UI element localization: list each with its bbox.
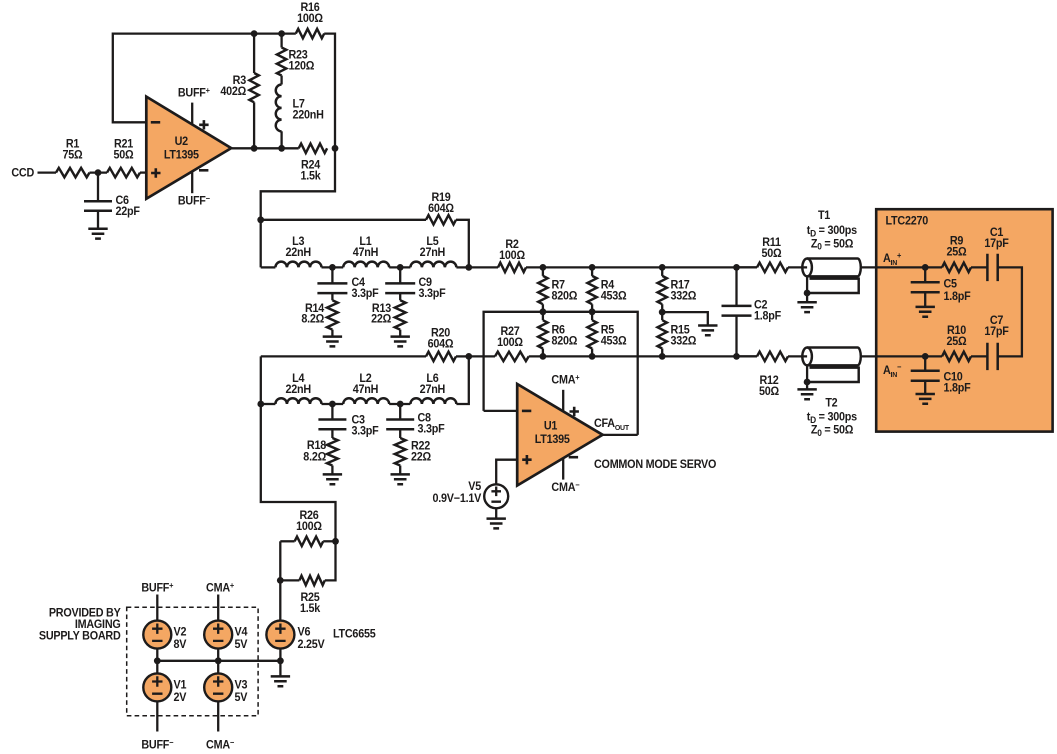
wire inverting input U1 <box>484 410 518 412</box>
node C2 bottom junction <box>733 353 740 360</box>
svg-text:V6: V6 <box>298 626 311 638</box>
inductor L4 <box>261 373 322 404</box>
wire <box>279 649 281 661</box>
svg-text:V3: V3 <box>235 679 248 691</box>
resistor R25 <box>280 541 335 615</box>
pin CMA- supply stub U1 <box>551 458 580 494</box>
resistor R3 <box>220 34 258 149</box>
capacitor C3 <box>318 404 378 438</box>
inductor L5 <box>410 236 456 268</box>
ground <box>916 307 935 317</box>
svg-text:820Ω: 820Ω <box>552 290 578 302</box>
svg-text:T2: T2 <box>825 397 837 409</box>
wire <box>279 580 281 620</box>
node R27-R6 junction <box>540 353 547 360</box>
svg-text:1.8pF: 1.8pF <box>754 310 781 322</box>
wire <box>217 649 219 674</box>
node R20-L6-R27 junction <box>465 353 472 360</box>
svg-text:5V: 5V <box>235 639 248 651</box>
resistor R19 <box>261 191 469 267</box>
transmission line T1 <box>802 209 860 293</box>
svg-text:17pF: 17pF <box>984 325 1009 337</box>
svg-text:SUPPLY BOARD: SUPPLY BOARD <box>39 630 121 642</box>
ground <box>391 337 410 347</box>
svg-text:100Ω: 100Ω <box>497 337 523 349</box>
svg-text:CCD: CCD <box>11 167 34 179</box>
node L1-L5-C9 junction <box>397 264 404 271</box>
node output-R16 junction <box>332 145 339 152</box>
pin CMA+ supply stub U1 <box>551 373 580 411</box>
pin AIN+ label <box>883 251 902 268</box>
svg-text:3.3pF: 3.3pF <box>352 425 379 437</box>
resistor R2 <box>469 239 543 272</box>
wire <box>389 403 410 405</box>
svg-text:LTC6655: LTC6655 <box>333 628 376 640</box>
wire output jog down <box>261 148 335 267</box>
svg-text:V2: V2 <box>174 626 187 638</box>
node R25-V6 junction <box>277 577 284 584</box>
node L5-R19-R2 junction <box>465 264 472 271</box>
node L2-L6-C8 junction <box>397 401 404 408</box>
node V6 bottom junction <box>277 657 284 664</box>
svg-text:47nH: 47nH <box>353 247 379 259</box>
ground <box>271 661 290 686</box>
resistor R16 <box>296 2 324 39</box>
node R5 bottom junction <box>589 353 596 360</box>
svg-text:BUFF+: BUFF+ <box>141 581 174 595</box>
node R7-R6 junction <box>540 308 547 315</box>
ground <box>323 474 342 484</box>
node CCD input <box>11 167 34 179</box>
inductor L1 <box>343 236 389 268</box>
node R26-R25 right junction <box>332 538 339 545</box>
ground <box>487 508 506 528</box>
node T2 shield <box>804 379 811 386</box>
node L4 branch junction <box>257 401 264 408</box>
label common mode servo <box>594 459 717 471</box>
svg-text:LT1395: LT1395 <box>164 149 199 161</box>
wire supply common row <box>157 660 280 662</box>
resistor R9 <box>942 235 971 272</box>
svg-text:LT1395: LT1395 <box>535 434 570 446</box>
svg-text:2.25V: 2.25V <box>298 639 326 651</box>
voltage source V6 2.25V LTC6655 <box>266 621 375 652</box>
label provided by imaging supply board <box>39 607 121 642</box>
capacitor C9 <box>385 267 446 300</box>
svg-text:V4: V4 <box>235 626 249 638</box>
wire output CFA <box>603 434 638 436</box>
ground <box>698 326 717 336</box>
node V4-V3 junction <box>215 657 222 664</box>
pin CMA- supply <box>206 738 235 752</box>
voltage source V3 5V <box>204 673 248 704</box>
svg-text:BUFF−: BUFF− <box>178 194 211 208</box>
voltage source V4 5V <box>204 621 248 652</box>
node C2 top junction <box>733 264 740 271</box>
svg-text:25Ω: 25Ω <box>947 335 967 347</box>
voltage source V5 0.9V-1.1V <box>433 481 509 508</box>
svg-text:3.3pF: 3.3pF <box>419 288 446 300</box>
pin BUFF+ supply stub U2 <box>178 86 211 125</box>
svg-text:22Ω: 22Ω <box>411 451 431 463</box>
wire <box>971 266 987 268</box>
resistor R18 <box>303 438 337 474</box>
ground <box>916 394 935 404</box>
wire lower left branch <box>261 356 336 541</box>
transmission line T2 <box>802 348 861 439</box>
pin CMA+ supply <box>206 581 235 621</box>
node T1 shield <box>804 290 811 297</box>
resistor R7 <box>538 267 577 311</box>
wire non-inverting input U1 <box>496 460 517 485</box>
voltage source V1 2V <box>143 673 187 704</box>
capacitor C10 <box>911 356 971 394</box>
svg-text:27nH: 27nH <box>420 247 446 259</box>
wire <box>456 356 468 404</box>
pin BUFF- supply stub U2 <box>178 172 211 208</box>
wire <box>322 266 344 268</box>
node CFAOUT label <box>594 418 630 432</box>
svg-text:2V: 2V <box>174 692 187 704</box>
resistor R6 <box>538 312 577 357</box>
node L3-L1-C4 junction <box>329 264 336 271</box>
capacitor C8 <box>386 404 445 438</box>
node R19 branch junction <box>257 216 264 223</box>
svg-text:604Ω: 604Ω <box>428 338 454 350</box>
resistor R10 <box>942 324 971 361</box>
wire <box>140 171 146 173</box>
ground <box>797 293 816 312</box>
resistor R26 <box>280 509 335 546</box>
wire <box>38 171 57 173</box>
wire feedback to inverting input <box>113 34 296 123</box>
svg-text:100Ω: 100Ω <box>499 250 525 262</box>
svg-text:V1: V1 <box>174 679 187 691</box>
resistor R17 <box>658 267 697 320</box>
node R2-R7 junction <box>540 264 547 271</box>
ground <box>391 474 410 484</box>
inductor L3 <box>261 236 322 268</box>
svg-text:22pF: 22pF <box>116 206 141 218</box>
svg-text:BUFF−: BUFF− <box>141 738 174 752</box>
node V2-V1 junction <box>154 657 161 664</box>
wire <box>156 701 158 731</box>
resistor R23 <box>277 34 315 76</box>
node R17 top junction <box>659 264 666 271</box>
resistor R22 <box>395 438 431 474</box>
op-amp U2 <box>146 97 231 199</box>
svg-text:332Ω: 332Ω <box>671 290 697 302</box>
svg-text:1.8pF: 1.8pF <box>944 291 971 303</box>
wire servo mid row <box>484 312 638 435</box>
node R4 top junction <box>589 264 596 271</box>
pin BUFF- supply <box>141 738 174 752</box>
resistor R4 <box>587 267 626 311</box>
svg-text:8.2Ω: 8.2Ω <box>303 451 326 463</box>
svg-text:1.5k: 1.5k <box>301 170 322 182</box>
resistor R12 <box>737 352 808 399</box>
svg-text:820Ω: 820Ω <box>552 335 578 347</box>
wire U2 output row <box>231 147 299 149</box>
node AIN- junction <box>922 353 929 360</box>
svg-text:LTC2270: LTC2270 <box>886 215 929 227</box>
node feedback-R3 junction <box>251 30 258 37</box>
capacitor C7 <box>984 314 1009 370</box>
dashed imaging supply board outline <box>127 607 258 716</box>
svg-text:U1: U1 <box>544 420 557 432</box>
ground <box>797 382 816 399</box>
capacitor C6 <box>84 173 140 229</box>
svg-text:5V: 5V <box>235 692 248 704</box>
resistor R1 <box>56 138 90 177</box>
node feedback-R23 junction <box>278 30 285 37</box>
wire lower row <box>529 355 757 357</box>
wire <box>971 355 987 357</box>
resistor R14 <box>301 300 337 336</box>
wire upper row <box>543 266 757 268</box>
node L4-L2-C3 junction <box>329 401 336 408</box>
svg-text:8V: 8V <box>174 639 187 651</box>
wire <box>389 266 410 268</box>
inductor L2 <box>343 373 389 404</box>
inductor L7 <box>276 76 324 149</box>
svg-text:27nH: 27nH <box>420 384 446 396</box>
wire <box>156 649 158 674</box>
node AIN+ junction <box>922 264 929 271</box>
svg-text:100Ω: 100Ω <box>296 520 322 532</box>
node junction R1-R21-C6 <box>95 169 102 176</box>
svg-text:BUFF+: BUFF+ <box>178 86 211 100</box>
capacitor C4 <box>317 267 378 300</box>
wire T2 to AIN- <box>861 355 942 357</box>
wire to ground tap <box>662 312 708 325</box>
svg-text:120Ω: 120Ω <box>289 60 315 72</box>
resistor R21 <box>107 138 140 177</box>
svg-text:22Ω: 22Ω <box>371 313 391 325</box>
capacitor C1 <box>984 227 1009 281</box>
pin BUFF+ supply <box>141 581 174 621</box>
svg-text:453Ω: 453Ω <box>601 335 627 347</box>
svg-text:1.5k: 1.5k <box>300 603 321 615</box>
svg-text:453Ω: 453Ω <box>601 290 627 302</box>
resistor R13 <box>371 300 406 336</box>
pin AIN- label <box>883 362 902 379</box>
IC LTC2270 block <box>876 209 1052 431</box>
svg-text:U2: U2 <box>175 135 188 147</box>
svg-text:604Ω: 604Ω <box>428 202 454 214</box>
svg-text:332Ω: 332Ω <box>671 335 697 347</box>
wire <box>217 701 219 731</box>
svg-text:T1: T1 <box>818 209 830 221</box>
svg-text:1.8pF: 1.8pF <box>944 382 971 394</box>
wire T1 to AIN+ <box>861 266 942 268</box>
node R4-R5 junction <box>589 308 596 315</box>
node output-L7 junction <box>278 145 285 152</box>
wire <box>324 34 335 149</box>
node R17-R15 junction <box>659 309 666 316</box>
ground <box>323 337 342 347</box>
svg-text:25Ω: 25Ω <box>947 246 967 258</box>
svg-text:17pF: 17pF <box>984 238 1009 250</box>
svg-text:V5: V5 <box>468 481 481 493</box>
svg-text:3.3pF: 3.3pF <box>418 423 445 435</box>
svg-text:50Ω: 50Ω <box>762 248 782 260</box>
ground <box>88 229 107 239</box>
voltage source V2 8V <box>143 621 187 652</box>
svg-text:3.3pF: 3.3pF <box>352 288 379 300</box>
svg-text:75Ω: 75Ω <box>63 149 83 161</box>
resistor R20 <box>261 327 469 361</box>
svg-text:50Ω: 50Ω <box>114 149 134 161</box>
svg-text:220nH: 220nH <box>293 109 324 121</box>
svg-text:8.2Ω: 8.2Ω <box>301 313 324 325</box>
svg-text:50Ω: 50Ω <box>759 386 779 398</box>
node R15 bottom junction <box>659 353 666 360</box>
wire <box>322 403 344 405</box>
resistor R27 <box>469 326 529 361</box>
svg-text:0.9V−1.1V: 0.9V−1.1V <box>433 492 482 504</box>
resistor R24 <box>299 144 327 183</box>
svg-text:22nH: 22nH <box>285 384 311 396</box>
node output-R3 junction <box>251 145 258 152</box>
svg-text:47nH: 47nH <box>353 384 379 396</box>
wire C1-C7 join <box>998 267 1022 356</box>
svg-text:402Ω: 402Ω <box>220 86 246 98</box>
capacitor C2 <box>722 267 782 356</box>
svg-text:COMMON MODE SERVO: COMMON MODE SERVO <box>594 459 717 471</box>
resistor R11 <box>737 237 808 272</box>
resistor R15 <box>658 320 697 356</box>
svg-text:C5: C5 <box>944 278 957 290</box>
resistor R5 <box>587 312 626 357</box>
wire <box>90 171 108 173</box>
capacitor C5 <box>911 267 971 306</box>
inductor L6 <box>410 373 456 404</box>
op-amp U1 <box>517 384 602 486</box>
svg-text:22nH: 22nH <box>285 247 311 259</box>
wire <box>456 266 468 268</box>
svg-text:100Ω: 100Ω <box>297 13 323 25</box>
